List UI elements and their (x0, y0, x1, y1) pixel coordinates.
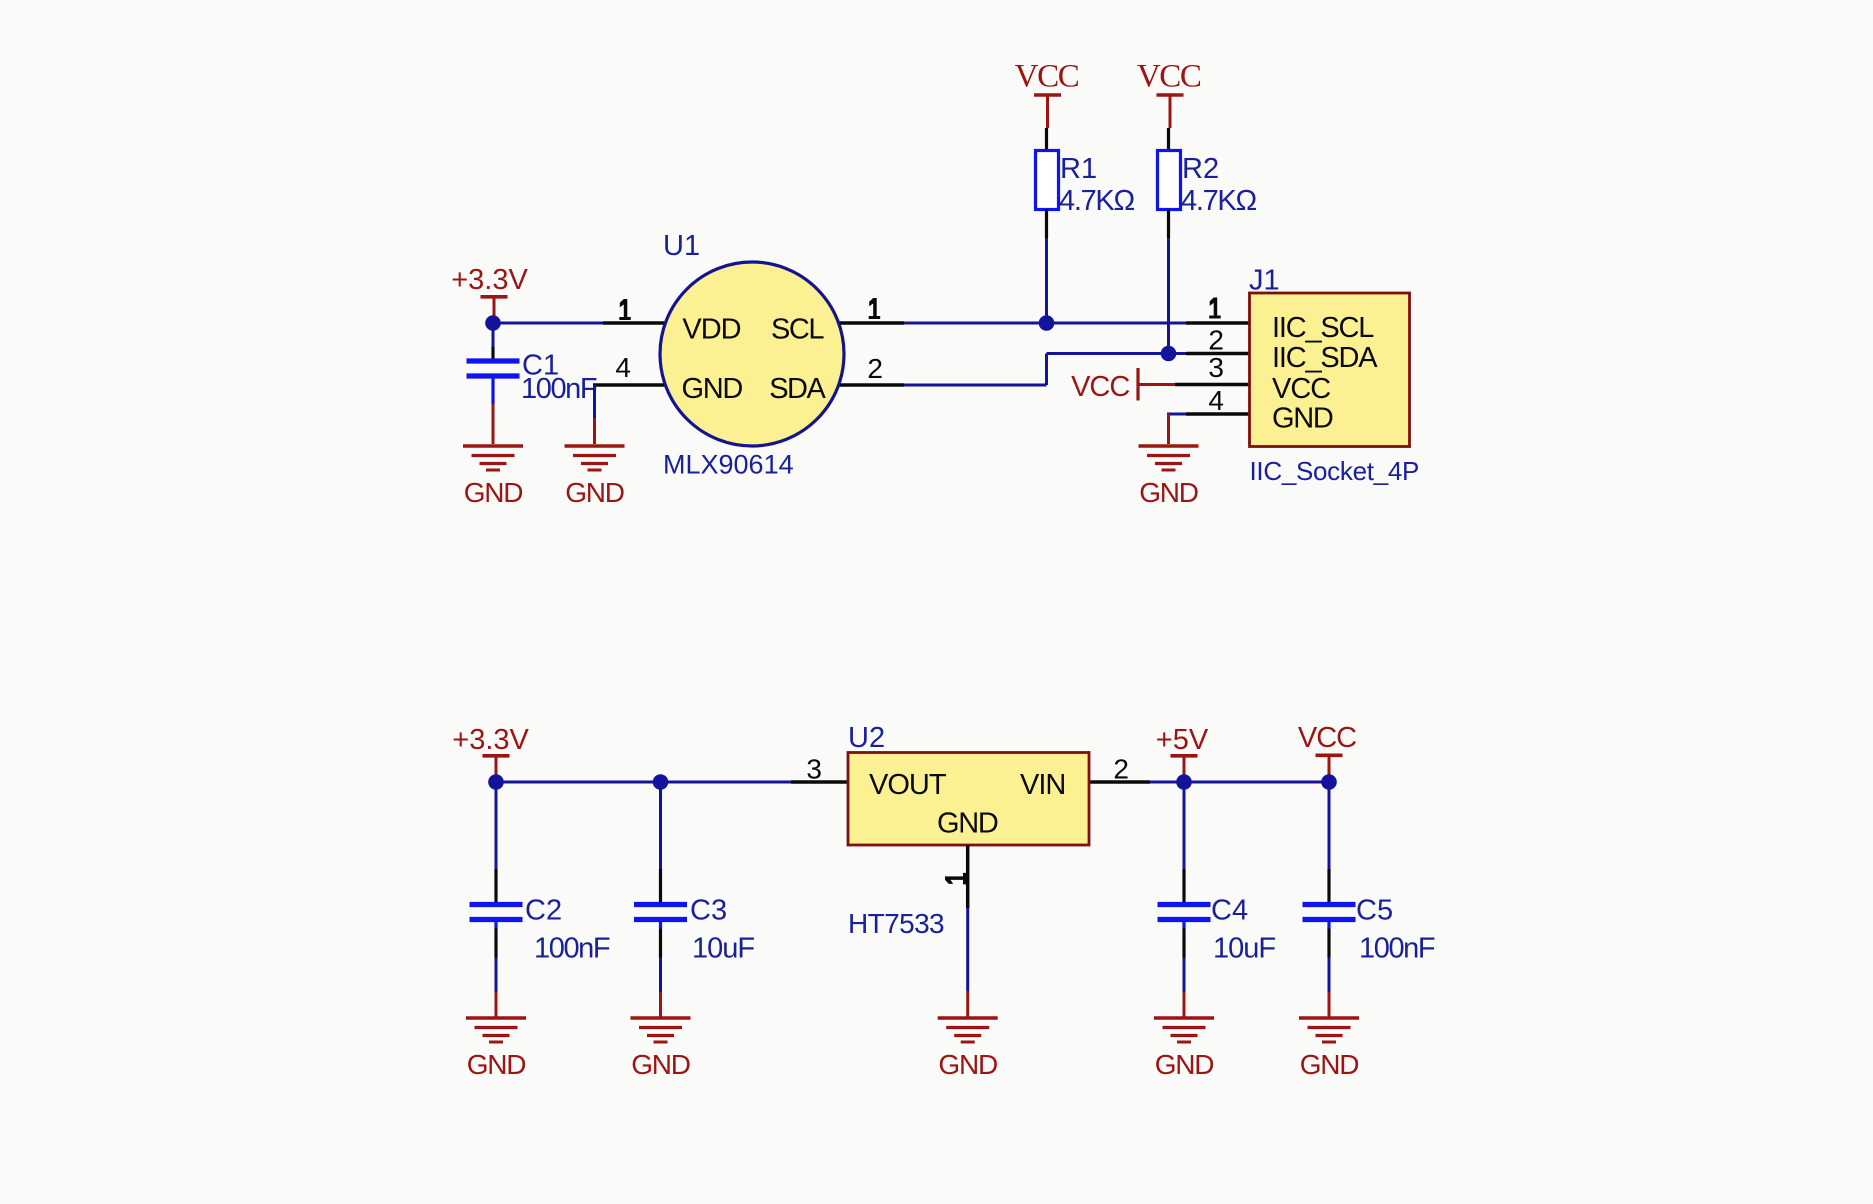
svg-text:3: 3 (1208, 352, 1224, 383)
svg-text:4: 4 (615, 352, 631, 383)
svg-text:MLX90614: MLX90614 (663, 450, 794, 480)
svg-text:U1: U1 (663, 230, 700, 262)
svg-text:VCC: VCC (1137, 59, 1201, 95)
svg-text:R1: R1 (1060, 153, 1097, 185)
svg-text:+5V: +5V (1156, 724, 1209, 756)
svg-text:GND: GND (1155, 1049, 1214, 1080)
svg-text:VOUT: VOUT (869, 769, 947, 801)
svg-text:GND: GND (464, 477, 523, 508)
svg-text:GND: GND (1272, 403, 1333, 435)
svg-text:VCC: VCC (1298, 722, 1356, 754)
svg-text:10uF: 10uF (692, 933, 754, 965)
svg-text:HT7533: HT7533 (848, 908, 944, 939)
svg-text:GND: GND (631, 1049, 690, 1080)
svg-text:VIN: VIN (1020, 769, 1065, 801)
svg-text:2: 2 (867, 353, 883, 384)
svg-text:IIC_SDA: IIC_SDA (1272, 342, 1378, 374)
svg-text:4.7KΩ: 4.7KΩ (1181, 185, 1256, 217)
svg-text:GND: GND (467, 1049, 526, 1080)
svg-text:C2: C2 (525, 895, 562, 927)
svg-text:GND: GND (938, 1049, 997, 1080)
svg-text:2: 2 (1113, 754, 1129, 785)
svg-text:C3: C3 (690, 895, 727, 927)
svg-text:100nF: 100nF (521, 373, 597, 405)
svg-text:R2: R2 (1182, 153, 1219, 185)
svg-text:+3.3V: +3.3V (451, 264, 528, 296)
svg-text:GND: GND (1139, 477, 1198, 508)
svg-text:U2: U2 (848, 722, 885, 754)
svg-text:C5: C5 (1356, 895, 1393, 927)
svg-text:GND: GND (565, 477, 624, 508)
svg-text:4: 4 (1208, 385, 1224, 416)
svg-text:10uF: 10uF (1213, 933, 1275, 965)
svg-text:C4: C4 (1211, 895, 1248, 927)
svg-text:4.7KΩ: 4.7KΩ (1059, 185, 1134, 217)
svg-text:VCC: VCC (1272, 373, 1330, 405)
svg-text:IIC_Socket_4P: IIC_Socket_4P (1250, 456, 1420, 486)
svg-text:2: 2 (1208, 325, 1224, 356)
svg-text:SCL: SCL (771, 314, 824, 346)
svg-text:+3.3V: +3.3V (452, 724, 529, 756)
svg-text:GND: GND (1300, 1049, 1359, 1080)
svg-text:GND: GND (937, 808, 998, 840)
svg-text:SDA: SDA (769, 373, 826, 405)
svg-text:VCC: VCC (1015, 59, 1079, 95)
svg-text:100nF: 100nF (534, 933, 610, 965)
svg-text:3: 3 (806, 754, 822, 785)
svg-text:100nF: 100nF (1359, 933, 1435, 965)
svg-text:GND: GND (682, 373, 743, 405)
svg-text:J1: J1 (1249, 265, 1280, 297)
svg-text:VCC: VCC (1071, 371, 1129, 403)
svg-text:IIC_SCL: IIC_SCL (1272, 312, 1374, 344)
svg-text:VDD: VDD (682, 314, 740, 346)
